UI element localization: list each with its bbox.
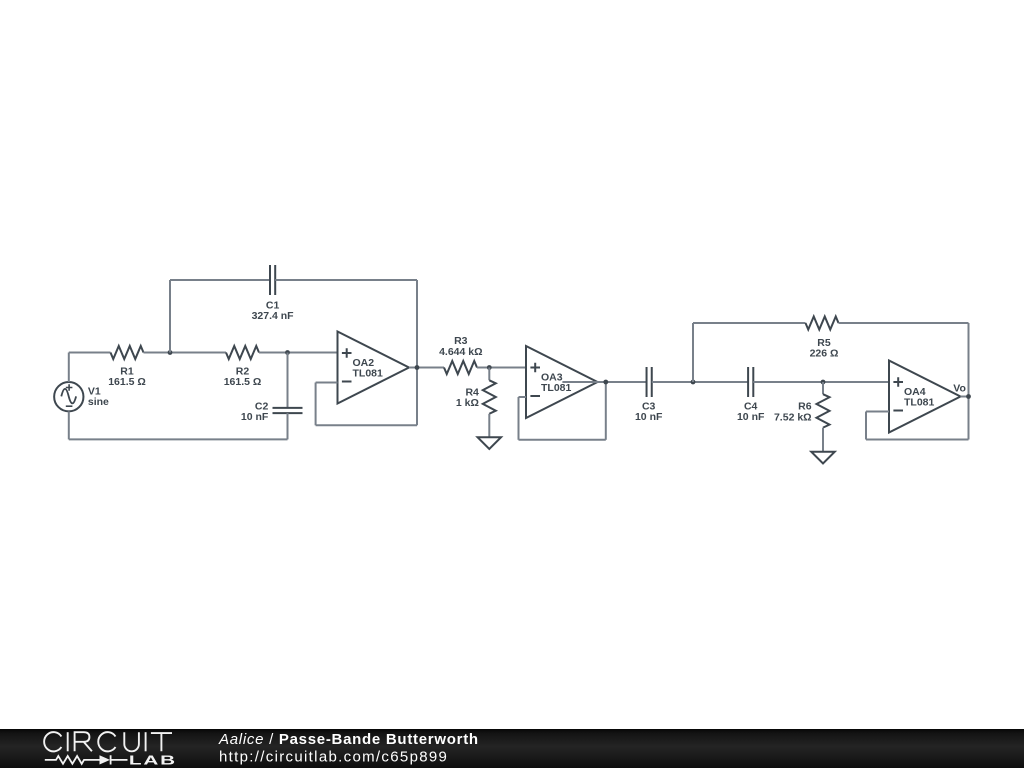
resistor R5 bbox=[806, 317, 839, 330]
wire OA3 feedback left bbox=[518, 397, 520, 440]
svg-text:LAB: LAB bbox=[129, 753, 177, 768]
svg-text:TL081: TL081 bbox=[353, 368, 384, 380]
resistor R3 bbox=[444, 361, 477, 374]
wire OA4 feedback bottom bbox=[866, 439, 969, 441]
wire OA3 minus stub bbox=[519, 396, 527, 398]
node D junction bbox=[691, 380, 696, 385]
logo resistor-diode glyph bbox=[45, 756, 100, 764]
wire C1 right plate to output branch bbox=[275, 279, 417, 281]
node C junction bbox=[487, 365, 492, 370]
svg-text:7.52 kΩ: 7.52 kΩ bbox=[774, 411, 812, 423]
wire OA3 feedback bottom bbox=[519, 439, 606, 441]
op-amp OA4 bbox=[889, 361, 961, 433]
wire to C1 left plate bbox=[170, 279, 270, 281]
wire node B down to C2 bbox=[287, 353, 289, 408]
wire OA2 minus stub bbox=[316, 382, 338, 384]
wire OA4 feedback right vertical bbox=[968, 323, 970, 440]
wire V1 to R1 bbox=[69, 352, 111, 354]
svg-text:10 nF: 10 nF bbox=[635, 411, 663, 423]
op-amp OA2 bbox=[338, 332, 410, 404]
resistor R1 bbox=[111, 346, 144, 359]
node B junction bbox=[285, 350, 290, 355]
svg-text:10 nF: 10 nF bbox=[737, 411, 765, 423]
wire node A up to C1 bbox=[169, 280, 171, 353]
wire V1 top lead bbox=[68, 353, 70, 383]
wire C2 to bottom rail bbox=[287, 413, 289, 439]
wire OA2 feedback left bbox=[315, 383, 317, 426]
ground under R6 bbox=[811, 452, 835, 464]
svg-text:4.644 kΩ: 4.644 kΩ bbox=[439, 346, 482, 358]
svg-text:TL081: TL081 bbox=[541, 382, 572, 394]
svg-text:10 nF: 10 nF bbox=[241, 411, 269, 423]
wire OA4 feedback left bbox=[865, 412, 867, 440]
svg-text:TL081: TL081 bbox=[904, 397, 935, 409]
wire node D up to R5 rail bbox=[692, 323, 694, 382]
wire bottom rail bbox=[69, 438, 288, 440]
wire C4 to OA4 plus input bbox=[753, 381, 889, 383]
wire OA4 minus stub bbox=[866, 411, 889, 413]
capacitor C4 bbox=[748, 367, 753, 397]
svg-text:1 kΩ: 1 kΩ bbox=[456, 397, 479, 409]
svg-text:327.4 nF: 327.4 nF bbox=[252, 310, 295, 322]
wire R5 rail right bbox=[839, 322, 969, 324]
svg-text:http://circuitlab.com/c65p899: http://circuitlab.com/c65p899 bbox=[219, 749, 448, 766]
wire OA3 feedback right bbox=[605, 382, 607, 440]
svg-text:226 Ω: 226 Ω bbox=[810, 348, 839, 360]
node E junction bbox=[821, 380, 826, 385]
wire C3 to C4 through node D bbox=[652, 381, 748, 383]
wire node C down to R4 bbox=[488, 368, 490, 381]
svg-text:161.5 Ω: 161.5 Ω bbox=[108, 376, 146, 388]
voltage source V1 bbox=[54, 382, 83, 411]
wire output vertical bbox=[416, 280, 418, 425]
wire R6 to ground bbox=[822, 428, 824, 452]
wire node E down to R6 bbox=[822, 382, 824, 394]
svg-text:sine: sine bbox=[88, 396, 109, 408]
wire V1 bottom lead bbox=[68, 411, 70, 439]
ground under R4 bbox=[478, 437, 502, 449]
resistor R2 bbox=[226, 346, 259, 359]
capacitor C1 bbox=[270, 265, 275, 295]
logo CIRCUIT wordmark bbox=[44, 732, 61, 751]
wire OA4 output bbox=[961, 396, 969, 398]
node A junction bbox=[168, 350, 173, 355]
wire R2 to OA2 plus input bbox=[259, 352, 338, 354]
capacitor C2 bbox=[273, 408, 303, 413]
svg-text:161.5 Ω: 161.5 Ω bbox=[224, 376, 262, 388]
wire R5 rail left bbox=[693, 322, 806, 324]
node OA3 output junction bbox=[603, 380, 608, 385]
op-amp OA3 bbox=[526, 346, 598, 418]
wire R4 to ground bbox=[488, 414, 490, 437]
svg-text:Aalice / Passe-Bande Butterwor: Aalice / Passe-Bande Butterworth bbox=[218, 731, 479, 748]
wire OA2 output to R3 bbox=[409, 367, 444, 369]
svg-text:Vo: Vo bbox=[953, 383, 966, 395]
resistor R6 bbox=[817, 394, 830, 427]
wire R1 to R2 through node A bbox=[144, 352, 227, 354]
node OA2 output junction bbox=[415, 365, 420, 370]
wire R3 to OA3 plus input bbox=[477, 367, 526, 369]
wire OA2 feedback bottom bbox=[316, 424, 417, 426]
footer bar bbox=[0, 729, 1024, 768]
resistor R4 bbox=[483, 380, 496, 413]
node Vo output junction bbox=[966, 394, 971, 399]
wire OA3 output to C3 bbox=[562, 381, 646, 383]
capacitor C3 bbox=[647, 367, 652, 397]
